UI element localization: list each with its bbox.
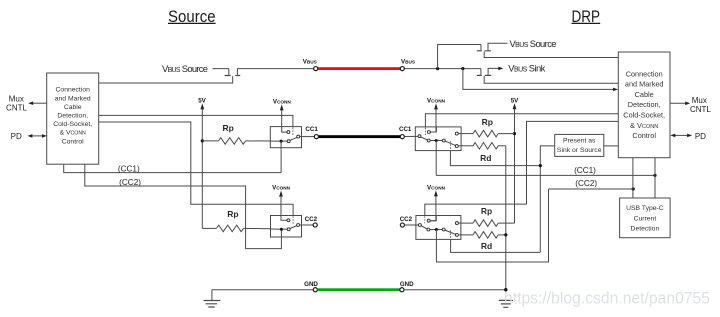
wire VBUS Source label to Q1: [213, 68, 229, 70]
wire Q1 to VBUS pin: [237, 68, 313, 70]
wire SW3 common to CC1 net: [435, 141, 437, 176]
node CC2 net (Source): [85, 164, 282, 248]
node CC1 net (Source): [64, 164, 281, 173]
transistor Q1 (Source VBUS FET): [99, 69, 241, 83]
svg-text:Rd: Rd: [480, 153, 491, 163]
switch SW2 (Source CC2): [271, 216, 314, 238]
svg-text:and Marked: and Marked: [55, 95, 91, 102]
svg-text:(CC1): (CC1): [574, 166, 596, 175]
control box U1 (Source): Connection and Marked Cable Detection: [47, 73, 99, 164]
svg-text:CC1: CC1: [305, 126, 318, 133]
node 5V-Rp1 junction: [201, 139, 204, 142]
wire GND cable (green bar): [317, 288, 400, 291]
svg-text:https://blog.csdn.net/pan0755: https://blog.csdn.net/pan0755: [504, 290, 710, 308]
svg-text:(CC2): (CC2): [575, 179, 597, 188]
svg-text:VBUS Sink: VBUS Sink: [508, 63, 545, 74]
wire switch control 2 (Source): [99, 122, 293, 216]
node CC1 net (DRP): [436, 166, 656, 177]
mechanical link switch SW2: [292, 216, 294, 224]
svg-text:Control: Control: [62, 138, 84, 145]
svg-text:Sink or Source: Sink or Source: [557, 147, 602, 154]
resistor Rp (DRP CC1): [458, 130, 514, 137]
svg-text:Detection: Detection: [631, 226, 660, 233]
svg-text:CNTL: CNTL: [6, 103, 27, 112]
svg-text:Current: Current: [634, 215, 657, 222]
supply arrow 5V (DRP): [513, 103, 517, 109]
svg-text:VCONN: VCONN: [273, 98, 292, 105]
arrow Mux CNTL out: [28, 101, 47, 105]
wire CC2 pin to SW4: [405, 224, 419, 226]
resistor Rp (Source CC2): [202, 225, 270, 232]
resistor Rd (DRP CC1): [458, 143, 506, 150]
pin CC2 (DRP): [400, 223, 404, 227]
svg-text:PD: PD: [695, 132, 706, 141]
wire CC1 pin to DRP switch: [404, 135, 418, 137]
supply arrow VCONN (DRP CC1): [434, 103, 438, 109]
svg-text:Mux: Mux: [9, 94, 24, 103]
transistor Q3 (DRP VBUS Sink FET): [477, 68, 619, 83]
wire VBUS to Q2: [438, 45, 481, 69]
wire ground rail (DRP): [505, 146, 507, 300]
svg-text:Cable: Cable: [64, 104, 82, 111]
node VBUS branch 1: [436, 67, 439, 70]
box Present as Sink or Source: [555, 134, 604, 156]
wire VBUS main (DRP): [404, 68, 481, 70]
svg-text:VCONN: VCONN: [427, 184, 446, 191]
switch SW3 (DRP CC1): [415, 127, 461, 151]
pin CC1 (DRP): [400, 135, 404, 139]
svg-text:Rp: Rp: [482, 117, 493, 127]
ground symbol (DRP): [499, 300, 513, 307]
svg-text:VCONN: VCONN: [427, 97, 446, 104]
switch SW4 (DRP CC2): [416, 216, 461, 240]
resistor Rd (DRP CC2): [458, 232, 506, 239]
wire SW3 select from Present-as: [450, 151, 540, 166]
wire switch control 1 (Source): [99, 115, 293, 126]
supply arrow VCONN (DRP CC2): [434, 190, 438, 196]
wire VBUS cable (red bar): [318, 67, 401, 70]
svg-text:PD: PD: [11, 132, 22, 141]
label Mux CNTL (left): [6, 94, 27, 112]
mechanical link switch SW1: [292, 127, 294, 135]
wire VBUS sense to control box: [463, 69, 615, 90]
wire Present-as to control box: [604, 145, 619, 147]
svg-text:5V: 5V: [511, 97, 519, 104]
svg-text:USB Type-C: USB Type-C: [626, 205, 664, 212]
arrow VBUS Sink: [498, 67, 503, 71]
wire VCONN feed to SW1: [282, 110, 287, 133]
pin GND (Source): [313, 288, 317, 292]
wire CC1 cable (black bar): [319, 135, 401, 138]
wire switch control A1 (DRP CC1): [425, 114, 618, 127]
mechanical link SW4: [424, 216, 426, 223]
wire control box to CC2 net: [632, 158, 634, 198]
svg-text:(CC1): (CC1): [118, 164, 140, 173]
node Present-as junction: [539, 164, 542, 167]
svg-text:Rp: Rp: [223, 123, 234, 133]
mechanical link SW3: [424, 128, 426, 135]
ground symbol (Source): [204, 290, 221, 307]
svg-text:and Marked: and Marked: [625, 80, 664, 89]
arrow PD bidirectional (right): [670, 134, 692, 138]
supply arrow 5V (Source): [200, 103, 204, 109]
svg-text:CC2: CC2: [400, 216, 413, 223]
svg-text:Detection,: Detection,: [57, 113, 88, 120]
wire Present-as select rail: [540, 146, 554, 253]
label Mux CNTL (right): [690, 96, 711, 114]
wire SW4 select from Present-as: [451, 239, 541, 252]
wire control box to CC1 net: [654, 158, 656, 198]
svg-text:Rp: Rp: [481, 206, 492, 216]
node CC2 net (DRP): [549, 179, 635, 190]
svg-text:GND: GND: [304, 281, 318, 288]
pin VBUS (Source): [314, 67, 318, 71]
svg-text:Present as: Present as: [563, 138, 596, 145]
svg-text:Mux: Mux: [692, 96, 707, 105]
svg-text:CC1: CC1: [399, 126, 412, 133]
svg-text:Connection: Connection: [626, 69, 663, 78]
svg-text:Cable: Cable: [635, 90, 654, 99]
svg-text:(CC2): (CC2): [119, 178, 141, 187]
resistor Rp (DRP CC2): [458, 220, 514, 227]
supply arrow VCONN (Source CC2): [279, 191, 283, 197]
svg-text:5V: 5V: [198, 98, 206, 105]
wire SW4 common to CC2 net: [436, 189, 548, 262]
svg-text:Connection: Connection: [56, 87, 91, 94]
box USB Type-C Current Detection: [620, 198, 671, 238]
arrow Mux CNTL out (right): [670, 102, 690, 106]
node Rd-ground junction (DRP CC2): [504, 233, 507, 236]
control box U2 (DRP): Connection and Marked Cable Detection: [618, 52, 670, 158]
svg-text:VCONN: VCONN: [272, 185, 291, 192]
wire VCONN feed to SW2: [281, 196, 287, 221]
svg-text:VBUS: VBUS: [401, 58, 415, 65]
wire VCONN feed to SW3: [430, 109, 436, 132]
pin CC1 (Source): [314, 135, 318, 139]
arrow PD bidirectional: [27, 134, 47, 138]
pin VBUS (DRP): [400, 67, 404, 71]
transistor Q2 (DRP VBUS Source FET): [477, 43, 619, 57]
svg-text:Detection,: Detection,: [628, 100, 661, 109]
svg-text:Cold-Socket,: Cold-Socket,: [53, 121, 92, 128]
node GND junction (DRP): [504, 288, 507, 291]
svg-text:VBUS: VBUS: [303, 58, 317, 65]
svg-text:Rd: Rd: [481, 241, 492, 251]
title DRP: [572, 7, 601, 26]
wire switch control A2 (DRP CC2): [425, 121, 619, 215]
svg-text:Cold-Socket,: Cold-Socket,: [623, 111, 665, 120]
switch SW1 (Source CC1): [270, 127, 314, 173]
title Source: [168, 7, 216, 26]
svg-text:CNTL: CNTL: [690, 105, 711, 114]
wire GND to pin (Source): [212, 289, 313, 291]
pin GND (DRP): [400, 288, 404, 292]
svg-text:Control: Control: [632, 131, 656, 140]
supply arrow VCONN (Source CC1): [280, 104, 284, 110]
arrow into control box: [613, 88, 618, 92]
node 5V-Rp junction (DRP CC1): [513, 132, 516, 135]
node VBUS branch 2: [461, 67, 464, 70]
resistor Rp (Source CC1): [202, 138, 270, 145]
svg-text:CC2: CC2: [305, 216, 318, 223]
wire GND pin to ground rail (DRP): [404, 289, 506, 291]
pin CC2 (Source): [313, 223, 317, 227]
svg-text:& VCONN: & VCONN: [60, 130, 86, 137]
wire 5V rail (DRP): [514, 109, 516, 224]
svg-text:Rp: Rp: [227, 209, 238, 219]
wire VCONN feed to SW4: [430, 196, 436, 221]
wire 5V rail (Source): [201, 109, 203, 229]
